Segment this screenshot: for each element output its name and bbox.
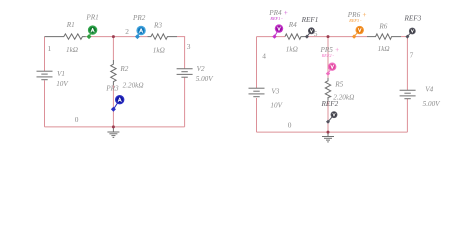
svg-text:PR1: PR1 <box>85 14 98 22</box>
wire right vertical (V4 branch) <box>406 37 408 133</box>
wire middle branch (R2) <box>112 37 114 127</box>
probe PR5 <box>326 62 337 75</box>
svg-text:R4: R4 <box>288 21 297 29</box>
svg-text:1kΩ: 1kΩ <box>153 47 165 55</box>
wire top right segment <box>401 36 407 38</box>
svg-text:3: 3 <box>187 42 191 51</box>
tiny ref label of PR4 <box>269 16 283 21</box>
probe PR1 <box>87 25 98 39</box>
svg-text:2.20kΩ: 2.20kΩ <box>123 81 144 89</box>
junction node 0 left <box>112 125 115 128</box>
wire top left segment <box>257 36 286 38</box>
svg-text:REF2: REF2 <box>321 100 339 108</box>
probe REF1 <box>305 27 315 38</box>
svg-text:R3: R3 <box>153 21 162 29</box>
svg-text:5.00V: 5.00V <box>196 75 215 83</box>
wire top middle segment <box>307 36 367 38</box>
probe PR6 <box>352 26 364 39</box>
battery V3 <box>249 88 265 97</box>
probe PR3 <box>111 95 125 112</box>
svg-text:1: 1 <box>48 44 52 53</box>
svg-text:0: 0 <box>75 115 79 124</box>
probe REF3 <box>405 28 415 39</box>
svg-text:1kΩ: 1kΩ <box>286 46 298 54</box>
probe PR4 <box>272 24 283 38</box>
battery V4 <box>400 90 416 99</box>
svg-text:5.00V: 5.00V <box>423 100 442 108</box>
tiny ref label of PR6 <box>348 18 362 23</box>
svg-text:V1: V1 <box>57 70 65 78</box>
probe REF2 <box>326 111 337 124</box>
wire top right to corner <box>177 36 185 38</box>
svg-text:1kΩ: 1kΩ <box>66 46 78 54</box>
svg-text:R5: R5 <box>334 81 343 89</box>
svg-text:R1: R1 <box>66 21 75 29</box>
wire top middle (node 2) <box>86 36 148 38</box>
svg-text:4: 4 <box>262 51 266 60</box>
svg-text:PR2: PR2 <box>132 14 146 22</box>
svg-text:5: 5 <box>314 29 318 38</box>
resistor R1 <box>45 34 86 39</box>
junction node top (right circuit) <box>327 35 330 38</box>
resistor R6 <box>367 34 401 39</box>
svg-text:REF3: REF3 <box>404 15 422 23</box>
resistor R5 <box>325 78 330 101</box>
svg-text:7: 7 <box>410 51 414 60</box>
wire middle branch (R5) <box>327 37 329 133</box>
wire bottom right circuit <box>257 131 408 133</box>
battery V1 <box>37 71 53 80</box>
svg-text:2: 2 <box>125 27 129 36</box>
svg-text:10V: 10V <box>56 80 69 88</box>
svg-text:R6: R6 <box>378 22 387 30</box>
ground (left circuit) <box>107 127 119 137</box>
wire left vertical (V1 branch) <box>44 37 46 127</box>
svg-text:R2: R2 <box>119 65 128 73</box>
svg-text:V2: V2 <box>197 65 205 73</box>
svg-text:REF1: REF1 <box>301 16 319 24</box>
resistor R3 <box>148 34 178 39</box>
junction node 0 right <box>327 131 330 134</box>
ground (right circuit) <box>322 132 334 142</box>
svg-text:REF2 -: REF2 - <box>321 53 335 58</box>
svg-text:REF3 -: REF3 - <box>348 18 362 23</box>
svg-text:V3: V3 <box>271 87 279 95</box>
svg-text:10V: 10V <box>270 101 283 109</box>
svg-text:1kΩ: 1kΩ <box>378 45 390 53</box>
wire left vertical (V3 branch) <box>256 37 258 133</box>
svg-text:V4: V4 <box>425 85 433 93</box>
junction node 2 <box>112 35 115 38</box>
svg-text:0: 0 <box>288 121 292 130</box>
probe PR2 <box>135 26 146 39</box>
wire right vertical (V2 branch) <box>184 37 186 127</box>
resistor R2 <box>111 60 116 85</box>
battery V2 <box>177 69 193 77</box>
wire bottom left circuit <box>45 126 185 128</box>
svg-text:REF1 -: REF1 - <box>269 16 283 21</box>
tiny ref label of PR5 <box>321 53 335 58</box>
resistor R4 <box>285 34 307 39</box>
svg-text:PR3: PR3 <box>105 84 119 92</box>
